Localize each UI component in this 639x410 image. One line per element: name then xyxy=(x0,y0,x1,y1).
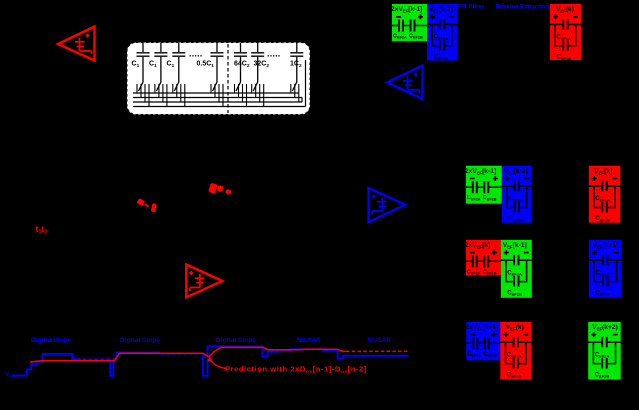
svg-text:Digital Slope: Digital Slope xyxy=(216,337,256,344)
op-amp U3 (blue, right-pointing) xyxy=(369,188,405,222)
reference bus wires xyxy=(133,60,306,107)
svg-text:CEF1B: CEF1B xyxy=(595,290,610,296)
svg-text:.....: ..... xyxy=(189,49,203,59)
svg-text:CEF1B: CEF1B xyxy=(557,55,572,61)
DAC waveform dashed segment 3 xyxy=(300,348,322,350)
svg-text:CEF2A: CEF2A xyxy=(595,352,610,358)
op-amp U3 internals xyxy=(372,195,387,215)
svg-text:Residue Extraction: Residue Extraction xyxy=(496,4,550,11)
capacitor 32C2 with switch xyxy=(251,43,264,91)
svg-text:VEF[k-2]: VEF[k-2] xyxy=(504,168,528,175)
svg-text:CEF2A: CEF2A xyxy=(434,35,449,41)
switch throw posts xyxy=(137,84,299,107)
op-amp U4 (red, right-pointing) xyxy=(186,265,222,298)
capacitor C1 (c) with switch xyxy=(172,43,185,91)
svg-text:CEF2B: CEF2B xyxy=(508,216,523,222)
svg-text:CEF2B: CEF2B xyxy=(595,372,610,378)
prediction line (red) xyxy=(30,347,346,362)
switch block SB10 (blue 2xVef[k+1]) xyxy=(465,322,500,361)
comparator U1 internals xyxy=(75,34,92,55)
switch block SB3 (red Vef(k)) xyxy=(548,4,584,61)
annotation arrow to prediction dip xyxy=(210,359,227,369)
svg-text:VEF(k+2): VEF(k+2) xyxy=(592,324,618,331)
svg-text:CEF1B: CEF1B xyxy=(595,216,610,222)
switch block SB11 (red Vef(k)) xyxy=(500,322,531,380)
switch block SB9 (blue Vef[k+1]) xyxy=(586,240,624,298)
svg-text:FIR Filter: FIR Filter xyxy=(457,4,485,11)
switch block SB2 (blue Vef[k-2]) xyxy=(427,4,457,61)
svg-text:VEF(k): VEF(k) xyxy=(506,324,524,331)
svg-text:CEF1A: CEF1A xyxy=(557,35,572,41)
svg-text:CEF2A: CEF2A xyxy=(507,270,522,276)
DAC NS-SAR segment xyxy=(322,351,409,359)
capacitor C1 (b) with switch xyxy=(154,43,167,91)
capacitor C1 (a) with switch xyxy=(137,43,150,91)
switch block SB12 (green Vef(k+2)) xyxy=(586,322,624,380)
cap value labels xyxy=(132,61,302,69)
CDAC capacitor array box xyxy=(127,43,310,115)
svg-text:CEF1A: CEF1A xyxy=(595,270,610,276)
svg-text:.....: ..... xyxy=(267,49,281,59)
svg-text:CEF2B: CEF2B xyxy=(507,290,522,296)
svg-text:NS-SAR: NS-SAR xyxy=(297,337,321,344)
svg-text:Digital Slope: Digital Slope xyxy=(120,337,160,344)
svg-text:CEF1A: CEF1A xyxy=(507,352,522,358)
switch block SB4 (green 2xVef[k-1]) xyxy=(465,166,502,204)
switch block SB5 (blue Vef[k-2]) xyxy=(502,166,532,223)
svg-text:CEF2A: CEF2A xyxy=(508,196,523,202)
capacitor 1C2 with switch xyxy=(290,43,303,91)
comparator U1 (red, left-pointing) xyxy=(58,27,95,61)
array split dashed divider xyxy=(227,44,229,113)
svg-text:2xVEF[k+1]: 2xVEF[k+1] xyxy=(465,324,498,331)
switch block SB1 (green 2xVef[k-1]) xyxy=(391,4,427,41)
svg-text:VEF[k-1]: VEF[k-1] xyxy=(503,242,527,249)
DAC staircase waveform (blue solid) xyxy=(12,354,77,376)
svg-text:VEF[k-2]: VEF[k-2] xyxy=(429,6,453,13)
switch block SB8 (green Vef[k-1]) xyxy=(501,240,532,298)
op-amp U4 internals xyxy=(189,271,204,291)
comparator U2 (blue, left-pointing) xyxy=(387,66,423,100)
comparator U2 internals xyxy=(403,73,420,94)
red residue label fragments (v - e) xyxy=(137,198,157,212)
svg-text:CEF1A: CEF1A xyxy=(595,196,610,202)
DAC spike 1 xyxy=(110,353,160,376)
svg-text:VEF[k+1]: VEF[k+1] xyxy=(593,242,619,249)
DAC waveform dashed segment 1 xyxy=(77,358,110,360)
prediction line dashed tail xyxy=(346,350,409,352)
svg-text:NS-SAR: NS-SAR xyxy=(368,337,392,344)
svg-text:CEF1B: CEF1B xyxy=(507,372,522,378)
svg-text:Digital Slope: Digital Slope xyxy=(31,337,71,344)
svg-text:VEF(k): VEF(k) xyxy=(556,6,574,13)
switch block SB7 (red 2xVef[k]) xyxy=(465,240,501,276)
switch block SB6 (red Vef[k]) xyxy=(586,166,623,223)
svg-text:CEF2B: CEF2B xyxy=(434,55,449,61)
DAC spike 2 and digital slope plateau xyxy=(203,347,300,376)
red error label fragments (E_R) xyxy=(208,183,231,195)
capacitor 64C2 with switch xyxy=(234,43,247,91)
DAC waveform dashed segment 2 xyxy=(160,353,203,355)
capacitor 0.5C1 with switch xyxy=(211,43,224,91)
svg-text:VEF[k]: VEF[k] xyxy=(594,168,612,175)
